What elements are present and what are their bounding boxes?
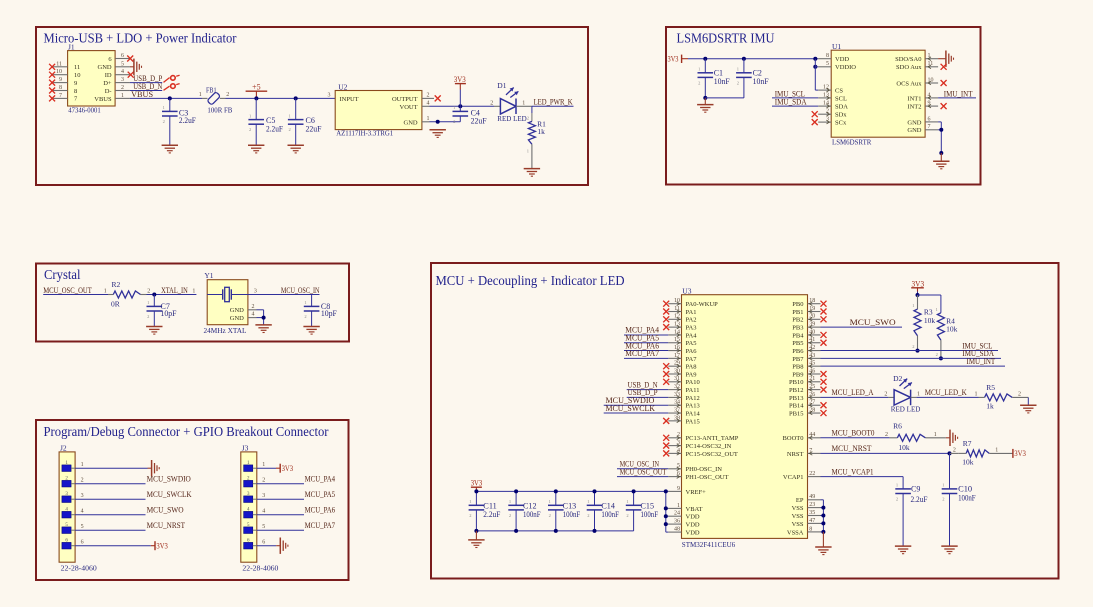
svg-text:47: 47	[809, 518, 815, 524]
svg-text:R6: R6	[893, 422, 902, 431]
svg-text:VSSA: VSSA	[787, 529, 804, 536]
U3 pin 18 (PB0)	[808, 303, 821, 305]
svg-text:PH0-OSC_IN: PH0-OSC_IN	[686, 466, 723, 473]
svg-text:2.2uF: 2.2uF	[911, 495, 929, 504]
svg-text:2: 2	[527, 116, 529, 121]
U3 pin 30 (PA9)	[668, 373, 681, 375]
svg-text:D1: D1	[497, 81, 506, 90]
svg-text:1k: 1k	[986, 402, 994, 411]
J3 wire MCU_PA7	[257, 529, 304, 531]
svg-text:35: 35	[809, 510, 815, 516]
svg-text:MCU_LED_K: MCU_LED_K	[925, 388, 967, 397]
J3 pin 1 pad	[244, 465, 253, 472]
svg-text:CS: CS	[835, 88, 843, 95]
svg-text:NRST: NRST	[787, 451, 804, 458]
block border: Micro-USB + LDO + Power Indicator	[36, 27, 588, 185]
svg-text:1: 1	[192, 288, 195, 294]
J1 pin 4 (ID)	[115, 74, 130, 76]
J2 pin 5 pad	[62, 527, 71, 534]
svg-text:1: 1	[975, 391, 978, 397]
svg-text:PB5: PB5	[792, 340, 803, 347]
svg-text:3: 3	[254, 288, 257, 294]
ground under C8	[303, 327, 319, 335]
U3 pin 40 (PB4)	[808, 334, 821, 336]
svg-text:PA9: PA9	[686, 371, 697, 378]
U1 pin 4 (INT1)	[925, 97, 938, 99]
J1 pin 11 (no connect)	[52, 66, 68, 68]
connector J2 body	[59, 452, 75, 562]
svg-text:1: 1	[304, 300, 306, 305]
svg-text:MCU_LED_A: MCU_LED_A	[832, 388, 874, 397]
block border: Program/Debug Connector + GPIO Breakout Connector	[36, 420, 349, 580]
svg-text:VBUS: VBUS	[94, 96, 112, 103]
ground under C1	[697, 105, 713, 113]
svg-text:+5: +5	[252, 82, 261, 91]
svg-text:PB1: PB1	[792, 309, 803, 316]
wire VDD vertical rail	[665, 491, 667, 532]
svg-text:10k: 10k	[946, 325, 958, 334]
U1 pin 5 (VDDIO)	[818, 66, 831, 68]
svg-text:2: 2	[453, 119, 455, 124]
svg-text:100nF: 100nF	[958, 494, 976, 503]
J2 pin 4 pad	[62, 511, 71, 518]
svg-text:2: 2	[936, 352, 938, 357]
svg-text:MCU_PA6: MCU_PA6	[305, 506, 336, 515]
wire MCU_SWDIO (U3)	[604, 404, 669, 406]
svg-text:47346-0001: 47346-0001	[68, 106, 101, 115]
svg-text:SDO Aux: SDO Aux	[896, 64, 922, 71]
U3 pin 20 (PB2)	[808, 318, 821, 320]
svg-text:1: 1	[936, 307, 938, 312]
power port +5	[255, 91, 257, 98]
svg-text:2: 2	[912, 344, 914, 349]
junction C13 bottom	[554, 529, 558, 533]
U3 pin 16 (PA6)	[668, 350, 681, 352]
ground under U2	[430, 130, 446, 138]
svg-text:PA7: PA7	[686, 356, 698, 363]
svg-text:9: 9	[74, 80, 77, 87]
svg-text:VSS: VSS	[792, 513, 804, 520]
svg-text:1: 1	[199, 92, 202, 98]
J1 pin 1 (VBUS)	[115, 97, 130, 99]
svg-text:6: 6	[121, 53, 124, 59]
U3 pin 11 (PA1)	[668, 311, 681, 313]
svg-text:OCS Aux: OCS Aux	[896, 80, 922, 87]
svg-text:RED LED: RED LED	[497, 114, 527, 123]
U3 pin 2 (PC13-ANTI_TAMP)	[668, 437, 681, 439]
no connect U3 pin 29	[663, 363, 669, 369]
svg-text:MCU_OSC_IN: MCU_OSC_IN	[281, 286, 320, 295]
U3 pin 6 (PH1-OSC_OUT)	[668, 476, 681, 478]
svg-text:PB6: PB6	[792, 348, 804, 355]
wire IMU_SCL (U1)	[772, 97, 818, 99]
svg-text:2.2uF: 2.2uF	[179, 116, 197, 125]
J2 wire MCU_NRST	[75, 529, 145, 531]
connector J1 body	[68, 51, 116, 106]
svg-text:MCU_PA5: MCU_PA5	[305, 490, 336, 499]
no connect U3 pin 19	[821, 309, 827, 315]
wire IMU_INT	[938, 97, 976, 99]
svg-text:PB12: PB12	[789, 387, 803, 394]
ground under R1	[524, 169, 540, 177]
junction C15 top	[632, 489, 636, 493]
svg-text:1: 1	[262, 462, 265, 468]
svg-text:2: 2	[147, 288, 150, 294]
J1 pin 9 (no connect)	[52, 82, 68, 84]
svg-text:PA13: PA13	[686, 403, 700, 410]
svg-text:PA5: PA5	[686, 340, 697, 347]
svg-text:VDD: VDD	[686, 522, 700, 529]
resistor R4	[937, 313, 944, 340]
junction R3 to IMU_SCL	[916, 349, 920, 353]
U2 pin 4 VOUT	[422, 105, 430, 107]
capacitor C12	[515, 491, 517, 505]
J3 pin 5 pad	[244, 527, 253, 534]
svg-text:PB9: PB9	[792, 371, 803, 378]
U1 pin 6 (GND)	[925, 121, 938, 123]
no connect U3 pin 28	[821, 410, 827, 416]
svg-text:1: 1	[289, 113, 291, 118]
svg-text:PB4: PB4	[792, 332, 804, 339]
svg-text:100nF: 100nF	[523, 510, 541, 519]
U3 pin 1 (VBAT)	[668, 507, 681, 509]
svg-text:24MHz XTAL: 24MHz XTAL	[204, 326, 247, 335]
J2 pin 6 wire to 3V3	[75, 545, 151, 547]
svg-text:IMU_SDA: IMU_SDA	[775, 98, 807, 107]
svg-text:1: 1	[912, 303, 914, 308]
svg-text:2: 2	[304, 314, 306, 319]
wire USB_D_N	[130, 90, 162, 92]
no connect U3 pin 46	[821, 371, 827, 377]
junction VBAT	[664, 506, 668, 510]
svg-text:PC13-ANTI_TAMP: PC13-ANTI_TAMP	[686, 435, 739, 442]
U1 pin 2 (SDx)	[818, 113, 831, 115]
svg-text:4: 4	[81, 509, 84, 515]
wire FB1 to +5 node	[226, 97, 336, 99]
ground under C3	[162, 145, 178, 153]
wire IMU_SDA (U1)	[772, 105, 818, 107]
svg-text:R5: R5	[986, 383, 995, 392]
junction above IMU ground	[939, 151, 943, 155]
svg-text:22uF: 22uF	[306, 125, 323, 134]
no connect U3 pin 30	[663, 371, 669, 377]
ground under VSSA rail	[822, 532, 824, 547]
J3 pin 6 pad	[244, 542, 253, 549]
J2 pin 1 pad	[62, 465, 71, 472]
svg-text:VBAT: VBAT	[686, 506, 703, 513]
resistor R7	[950, 452, 959, 454]
svg-text:GND: GND	[907, 127, 921, 134]
svg-text:3V3: 3V3	[454, 75, 466, 84]
svg-text:2: 2	[249, 127, 251, 132]
junction VSS 35	[821, 514, 825, 518]
capacitor C14	[594, 491, 596, 505]
U3 pin 41 (PB5)	[808, 342, 821, 344]
wire MCU_PA7 (U3)	[624, 357, 668, 359]
svg-text:23: 23	[809, 502, 815, 508]
ground under Y1	[255, 325, 271, 333]
wire VBUS net	[130, 97, 202, 99]
wire LED_PWR_K	[532, 105, 574, 107]
J1 pin 3 (D+)	[115, 82, 130, 84]
U1 pin 1 (SDO/SA0)	[925, 58, 938, 60]
U3 pin 27 (PB14)	[808, 404, 821, 406]
J3 wire MCU_PA4	[257, 483, 304, 485]
power port 3V3 at J3	[279, 464, 281, 473]
svg-text:PC15-OSC32_OUT: PC15-OSC32_OUT	[686, 451, 738, 458]
svg-text:9: 9	[59, 77, 62, 83]
svg-text:XTAL_IN: XTAL_IN	[161, 286, 188, 295]
J3 pin 1 wire to 3V3	[257, 467, 276, 469]
U3 pin 21 (PB10)	[808, 381, 821, 383]
U3 pin 33 (PA12)	[668, 396, 681, 398]
junction at C3	[168, 96, 172, 100]
junction at C6	[294, 96, 298, 100]
svg-text:10: 10	[74, 72, 81, 79]
testpoint marker USB_D_P	[164, 78, 170, 83]
ground under C10	[941, 546, 957, 554]
svg-text:4: 4	[262, 509, 265, 515]
svg-text:1: 1	[104, 288, 107, 294]
svg-text:OUTPUT: OUTPUT	[392, 96, 418, 103]
wire MCU_PA4 (U3)	[624, 334, 668, 336]
svg-text:22: 22	[809, 471, 815, 477]
resistor R3	[917, 295, 919, 309]
svg-text:1: 1	[509, 499, 511, 504]
svg-text:MCU_OSC_OUT: MCU_OSC_OUT	[620, 467, 667, 476]
U3 pin 5 (PH0-OSC_IN)	[668, 468, 681, 470]
wire IMU_INT (U3)	[821, 365, 1006, 367]
svg-text:PB10: PB10	[789, 379, 803, 386]
svg-text:Y1: Y1	[204, 271, 213, 280]
U1 pin 8 (VDD)	[818, 58, 831, 60]
svg-text:2: 2	[147, 314, 149, 319]
svg-text:3: 3	[262, 493, 265, 499]
svg-text:7: 7	[59, 93, 62, 99]
U3 pin 46 (PB9)	[808, 373, 821, 375]
svg-text:1: 1	[121, 93, 124, 99]
no connect U3 pin 3	[663, 443, 669, 449]
svg-text:7: 7	[928, 124, 931, 130]
U3 pin 43 (PB7)	[808, 357, 821, 359]
J3 wire MCU_PA6	[257, 514, 304, 516]
svg-text:MCU_BOOT0: MCU_BOOT0	[832, 429, 875, 438]
svg-text:5: 5	[121, 61, 124, 67]
J1 pin 8 (no connect)	[52, 90, 68, 92]
svg-text:FB1: FB1	[206, 86, 217, 95]
block border: MCU + Decoupling + Indicator LED	[431, 263, 1059, 579]
no connect OCS Aux	[941, 80, 947, 86]
U3 pin 28 (PB15)	[808, 412, 821, 414]
svg-text:2: 2	[121, 85, 124, 91]
svg-text:MCU_PA7: MCU_PA7	[305, 521, 336, 530]
svg-text:Program/Debug Connector + GPIO: Program/Debug Connector + GPIO Breakout …	[44, 425, 329, 440]
U3 pin 31 (PA10)	[668, 381, 681, 383]
svg-text:2: 2	[226, 92, 229, 98]
svg-text:PA12: PA12	[686, 395, 700, 402]
svg-text:Crystal: Crystal	[44, 268, 81, 283]
junction VSSA 8	[821, 530, 825, 534]
svg-text:ID: ID	[105, 72, 112, 79]
wire VDDIO/CS tie	[814, 59, 816, 90]
svg-text:3V3: 3V3	[471, 478, 483, 487]
U3 pin 12 (PA2)	[668, 318, 681, 320]
U3 pin 42 (PB6)	[808, 350, 821, 352]
U3 pin 38 (PA15)	[668, 420, 681, 422]
no connect U3 pin 10	[663, 301, 669, 307]
svg-text:U3: U3	[682, 287, 691, 296]
no connect U3 pin 20	[821, 316, 827, 322]
ferrite bead FB1	[202, 97, 208, 99]
svg-text:1: 1	[81, 462, 84, 468]
no connect U3 pin 41	[821, 340, 827, 346]
svg-text:2: 2	[953, 447, 956, 453]
junction VSS 23	[821, 506, 825, 510]
svg-text:INT1: INT1	[907, 95, 921, 102]
svg-text:1: 1	[917, 391, 920, 397]
svg-text:1: 1	[527, 149, 529, 154]
Y1 pin 3 wire MCU_OSC_IN	[248, 294, 320, 296]
resistor R5	[979, 396, 985, 398]
svg-text:MCU + Decoupling + Indicator L: MCU + Decoupling + Indicator LED	[436, 274, 625, 289]
svg-text:SCx: SCx	[835, 120, 847, 127]
U3 pin 35 (VSS)	[808, 515, 821, 517]
svg-text:VOUT: VOUT	[400, 104, 418, 111]
svg-text:49: 49	[809, 494, 815, 500]
wire R5 to ground	[1027, 397, 1029, 405]
IMU U1 body	[831, 50, 925, 137]
svg-text:VDD: VDD	[686, 530, 700, 537]
svg-text:GND: GND	[98, 64, 112, 71]
svg-text:PA3: PA3	[686, 325, 697, 332]
svg-text:8: 8	[809, 526, 812, 532]
svg-text:1: 1	[469, 499, 471, 504]
capacitor C7	[153, 295, 155, 307]
svg-text:10: 10	[56, 69, 62, 75]
svg-text:3: 3	[121, 77, 124, 83]
svg-text:IMU_INT: IMU_INT	[967, 357, 996, 366]
wire MCU_PA6 (U3)	[624, 350, 668, 352]
svg-text:PA15: PA15	[686, 418, 700, 425]
wire USB_D_N (U3)	[627, 389, 669, 391]
junction C12 bottom	[514, 529, 518, 533]
svg-text:PB8: PB8	[792, 364, 803, 371]
ground at J3 pin 6	[280, 538, 288, 554]
crystal symbol	[207, 294, 223, 296]
J1 pin 2 (D-)	[115, 90, 130, 92]
svg-text:1: 1	[163, 105, 165, 110]
svg-text:3: 3	[328, 92, 331, 98]
svg-text:PH1-OSC_OUT: PH1-OSC_OUT	[686, 474, 729, 481]
U2 pin 1 GND	[422, 121, 430, 123]
no connect U3 pin 38	[663, 418, 669, 424]
no connect U3 pin 13	[663, 324, 669, 330]
junction at C1 top	[703, 57, 707, 61]
no connect U3 pin 12	[663, 316, 669, 322]
LED D2	[888, 396, 894, 398]
svg-text:2: 2	[289, 127, 291, 132]
wire down to R1	[531, 106, 533, 113]
svg-text:PC14-OSC32_IN: PC14-OSC32_IN	[686, 443, 732, 450]
svg-text:1: 1	[995, 447, 998, 453]
svg-text:2: 2	[163, 119, 165, 124]
U3 pin 49 (EP)	[808, 499, 821, 501]
U3 pin 15 (PA5)	[668, 342, 681, 344]
U3 pin 26 (PB13)	[808, 396, 821, 398]
svg-text:LSM6DSRTR: LSM6DSRTR	[832, 138, 871, 147]
J2 wire MCU_SWCLK	[75, 498, 145, 500]
svg-text:10pF: 10pF	[161, 309, 178, 318]
svg-text:1: 1	[698, 67, 700, 72]
svg-text:8: 8	[59, 85, 62, 91]
svg-text:PA2: PA2	[686, 317, 697, 324]
svg-text:PB14: PB14	[789, 403, 804, 410]
junction at GND pin 7	[939, 128, 943, 132]
capacitor C13	[555, 491, 557, 505]
svg-text:INT2: INT2	[907, 104, 921, 111]
no connect SDO Aux	[941, 64, 947, 70]
U3 pin 9 (VREF+)	[668, 490, 681, 492]
svg-text:1: 1	[249, 113, 251, 118]
svg-text:VCAP1: VCAP1	[783, 474, 804, 481]
svg-text:11: 11	[56, 61, 62, 67]
svg-text:VREF+: VREF+	[686, 489, 707, 496]
svg-text:22-28-4060: 22-28-4060	[242, 563, 278, 572]
U3 pin 4 (PC15-OSC32_OUT)	[668, 452, 681, 454]
ground under U1	[940, 153, 942, 161]
svg-text:2: 2	[698, 80, 700, 85]
svg-text:C10: C10	[958, 484, 972, 493]
svg-text:PB2: PB2	[792, 317, 803, 324]
ground under C7	[146, 327, 162, 335]
svg-text:4: 4	[121, 69, 124, 75]
svg-text:10k: 10k	[898, 443, 910, 452]
svg-text:10nF: 10nF	[753, 77, 770, 86]
U3 pin 3 (PC14-OSC32_IN)	[668, 445, 681, 447]
no connect U3 pin 27	[821, 402, 827, 408]
ground after R6	[946, 437, 950, 439]
svg-text:2: 2	[490, 100, 493, 106]
svg-text:U1: U1	[832, 42, 841, 51]
svg-text:GND: GND	[230, 315, 244, 322]
junction at C1 bottom	[703, 96, 707, 100]
svg-text:8: 8	[74, 88, 77, 95]
J2 wire MCU_SWDIO	[75, 483, 145, 485]
svg-text:PA1: PA1	[686, 309, 697, 316]
svg-text:D-: D-	[105, 88, 112, 95]
svg-text:1: 1	[934, 432, 937, 438]
power port 3V3 after R7	[1012, 449, 1014, 458]
wire U1 GND pins to ground	[938, 121, 941, 123]
no connect U3 pin 2	[663, 435, 669, 441]
ground under C9	[895, 546, 911, 554]
svg-text:SDA: SDA	[835, 104, 848, 111]
J1 pin 6 (6)	[115, 58, 130, 60]
U3 pin 14 (PA4)	[668, 334, 681, 336]
svg-text:5: 5	[826, 61, 829, 67]
wire MCU_NRST	[821, 452, 950, 454]
block border: LSM6DSRTR IMU	[666, 27, 981, 185]
block border: Crystal	[36, 264, 349, 342]
svg-text:4: 4	[427, 100, 430, 106]
U3 pin 29 (PA8)	[668, 365, 681, 367]
capacitor C5	[255, 98, 257, 119]
U3 pin 48 (VDD)	[668, 531, 681, 533]
svg-text:MCU_OSC_OUT: MCU_OSC_OUT	[43, 286, 92, 295]
svg-text:2: 2	[737, 80, 739, 85]
capacitor C6	[295, 98, 297, 119]
svg-text:PA10: PA10	[686, 379, 700, 386]
